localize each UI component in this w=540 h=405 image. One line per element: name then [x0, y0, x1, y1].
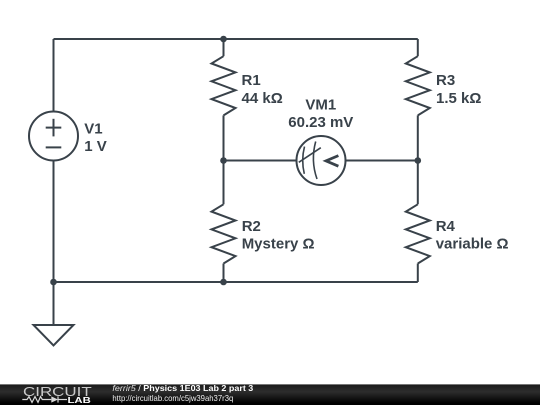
- voltage source V1: [29, 112, 78, 161]
- svg-text:variable Ω: variable Ω: [436, 236, 509, 253]
- svg-text:R1: R1: [242, 72, 261, 89]
- CircuitLab logo: [22, 384, 91, 405]
- svg-text:R3: R3: [436, 72, 455, 89]
- wire middle branch lower stub: [223, 264, 225, 283]
- junction node top middle: [220, 36, 227, 43]
- svg-text:1 V: 1 V: [84, 138, 107, 155]
- junction node middle right: [415, 157, 422, 164]
- label R4 variable Ω: [436, 218, 509, 253]
- voltmeter VM1: [297, 136, 346, 185]
- svg-text:R2: R2: [242, 218, 261, 235]
- wire middle branch upper stub: [223, 39, 225, 56]
- label R3 1.5 kΩ: [436, 72, 481, 107]
- wire left rail lower: [53, 161, 55, 283]
- resistor R2: [212, 204, 236, 263]
- svg-text:VM1: VM1: [305, 96, 336, 113]
- svg-text:Mystery Ω: Mystery Ω: [242, 236, 315, 253]
- resistor R4: [406, 204, 430, 263]
- svg-text:V1: V1: [84, 120, 102, 137]
- label V1 1 V: [84, 120, 107, 155]
- wire left rail upper: [53, 39, 55, 112]
- junction node bottom left: [50, 279, 57, 286]
- wire right branch lower stub: [417, 264, 419, 283]
- svg-text:LAB: LAB: [68, 395, 91, 405]
- junction node middle left: [220, 157, 227, 164]
- wire middle branch between R1 and R2: [223, 115, 225, 204]
- wire middle rail right of VM1: [346, 160, 418, 162]
- wire top rail: [54, 38, 418, 40]
- svg-text:60.23 mV: 60.23 mV: [288, 114, 353, 131]
- wire middle rail left of VM1: [224, 160, 297, 162]
- label VM1 60.23 mV: [288, 96, 353, 131]
- wire ground stem: [53, 282, 55, 325]
- resistor R1: [212, 56, 236, 115]
- label R2 Mystery Ω: [242, 218, 315, 253]
- wire right branch upper stub: [417, 39, 419, 56]
- svg-text:ferrir5 / Physics 1E03 Lab 2 p: ferrir5 / Physics 1E03 Lab 2 part 3: [112, 383, 253, 393]
- svg-text:http://circuitlab.com/c5jw39ah: http://circuitlab.com/c5jw39ah37r3q: [112, 393, 233, 403]
- svg-text:44 kΩ: 44 kΩ: [242, 90, 283, 107]
- ground: [34, 325, 74, 346]
- footer bar: [0, 384, 540, 405]
- junction node bottom middle: [220, 279, 227, 286]
- wire bottom rail: [54, 281, 418, 283]
- label R1 44 kΩ: [242, 72, 283, 107]
- svg-text:R4: R4: [436, 218, 456, 235]
- svg-text:1.5 kΩ: 1.5 kΩ: [436, 90, 481, 107]
- resistor R3: [406, 56, 430, 115]
- wire right branch between R3 and R4: [417, 115, 419, 204]
